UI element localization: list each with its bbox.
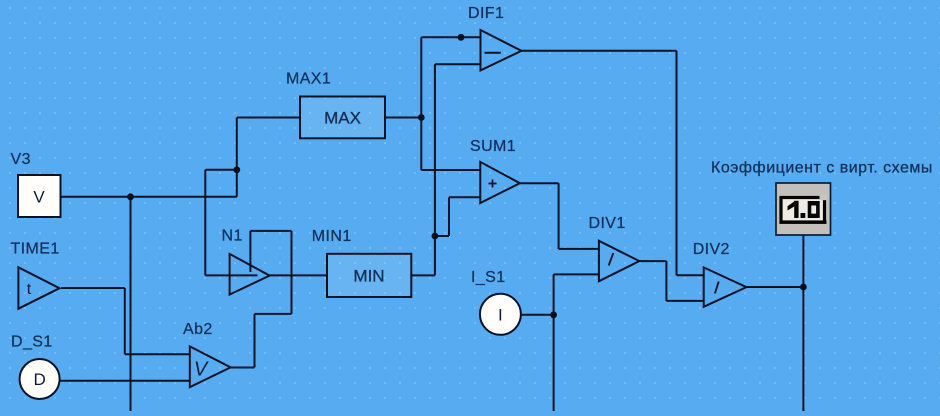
svg-text:V: V [33, 188, 45, 207]
svg-text:V3: V3 [11, 151, 31, 168]
svg-text:V: V [194, 359, 209, 381]
svg-text:Ab2: Ab2 [183, 321, 213, 338]
block DIF1 triangle [481, 30, 522, 70]
svg-text:TIME1: TIME1 [11, 241, 60, 258]
block MAX1 [300, 97, 385, 139]
block MIN1 [327, 254, 411, 297]
wire V3 branch down to bottom edge [130, 197, 132, 411]
node junction on DIF1 input1 [458, 34, 465, 41]
source I_S1 circle [480, 294, 521, 335]
wire DIV1 input2 horizontal [554, 273, 599, 275]
wire vertical up beside N1 [291, 231, 293, 314]
block N1 triangle [230, 254, 270, 295]
digit 0 [808, 201, 820, 218]
node junction DIV2 output [800, 284, 807, 291]
wire up to display block [802, 235, 804, 287]
node junction MAX output [418, 114, 425, 121]
node junction MIN net / SUM1 branch [432, 233, 439, 240]
wire DIV2 output horizontal [747, 286, 804, 288]
svg-text:DIV1: DIV1 [589, 215, 626, 232]
wire SUM1 input2 horizontal [449, 196, 481, 198]
svg-text:MAX1: MAX1 [286, 71, 331, 88]
svg-text:MIN: MIN [353, 267, 384, 286]
wire TIME1 output horizontal [61, 287, 125, 289]
svg-text:MAX: MAX [324, 109, 361, 128]
wire Ab2 input1 horizontal [125, 353, 190, 355]
wire DIV1 input1 horizontal [559, 248, 599, 250]
source V3 block [18, 175, 61, 217]
svg-text:SUM1: SUM1 [470, 138, 516, 155]
wire SUM1 output horizontal [520, 182, 559, 184]
wire down to N1 input [204, 170, 206, 276]
wire Ab2 output vertical up [254, 314, 256, 368]
wire up to SUM1 input2 [448, 197, 450, 236]
svg-text:t: t [27, 281, 32, 298]
wire DIV1 output vertical [665, 261, 667, 301]
svg-text:DIF1: DIF1 [468, 5, 504, 22]
wire SUM1 output vertical [558, 183, 560, 249]
wire down into N1 top [249, 231, 251, 272]
wire DIF1 output vertical down [676, 51, 678, 275]
block TIME1 triangle [18, 267, 59, 308]
display block (digital indicator) [776, 183, 831, 235]
svg-text:D: D [33, 370, 45, 389]
wire MIN1 output [411, 274, 435, 276]
block Ab2 triangle [190, 346, 231, 387]
wire DIV1 output horizontal [639, 260, 666, 262]
wire vertical MAX net to DIF1/SUM1 [420, 37, 422, 170]
svg-text:MIN1: MIN1 [312, 228, 352, 245]
wire DIV2 output vertical to bottom edge [802, 287, 804, 411]
wire DIF1 input1 horizontal [421, 36, 480, 38]
wire DIV2 input1 horizontal [677, 274, 704, 276]
svg-text:I: I [498, 306, 503, 325]
wire DIV2 input2 horizontal [666, 300, 703, 302]
wire MAX1 output [385, 117, 421, 119]
decimal point [801, 213, 806, 218]
wire branch left from node [205, 169, 237, 171]
wire N1 input horizontal [205, 274, 257, 276]
block DIV2 triangle [704, 267, 747, 306]
wire DIF1 input2 horizontal [435, 63, 481, 65]
block SUM1 triangle [480, 162, 520, 203]
wire TIME1 output vertical [124, 288, 126, 354]
wire D_S1 output to Ab2 input2 [60, 380, 190, 382]
svg-text:DIV2: DIV2 [693, 241, 730, 258]
node junction on V3 output [127, 193, 134, 200]
wire MAX1 input horizontal [237, 117, 300, 119]
svg-text:N1: N1 [222, 228, 243, 245]
wire SUM1 input1 horizontal [421, 169, 480, 171]
wire branch right from MIN net [435, 235, 449, 237]
digit 1 [788, 201, 799, 218]
wire N1 output to MIN1 input [270, 274, 327, 276]
wire vertical MIN net [434, 64, 436, 275]
node junction V3/N1/MAX branch [233, 166, 240, 173]
svg-text:Коэффициент с вирт. схемы: Коэффициент с вирт. схемы [711, 160, 933, 177]
wire vertical up to MAX input level [236, 118, 238, 197]
wire V3 output horizontal [57, 196, 237, 198]
svg-text:D_S1: D_S1 [11, 334, 53, 351]
node junction I_S1 net [550, 311, 557, 318]
svg-text:I_S1: I_S1 [471, 269, 506, 286]
block DIV1 triangle [599, 241, 639, 281]
wire Ab2 output horizontal [231, 367, 255, 369]
wire horizontal left above N1 [250, 230, 291, 232]
source D_S1 circle [20, 359, 60, 399]
wire DIF1 output horizontal [522, 50, 677, 52]
wire I_S1 output horizontal [521, 314, 554, 316]
wire I_S1 net vertical to bottom edge [553, 274, 555, 411]
wire horizontal right [255, 313, 292, 315]
